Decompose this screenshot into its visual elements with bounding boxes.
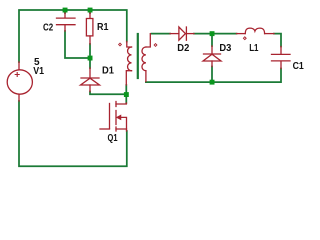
svg-text:V1: V1 [33,66,44,77]
svg-text:Q1: Q1 [108,133,118,144]
svg-text:C1: C1 [293,61,304,72]
svg-text:D3: D3 [219,43,231,54]
svg-text:L1: L1 [249,43,259,54]
svg-text:R1: R1 [97,22,109,33]
svg-text:C2: C2 [43,22,54,33]
svg-text:D1: D1 [102,65,114,76]
svg-text:D2: D2 [177,43,189,54]
